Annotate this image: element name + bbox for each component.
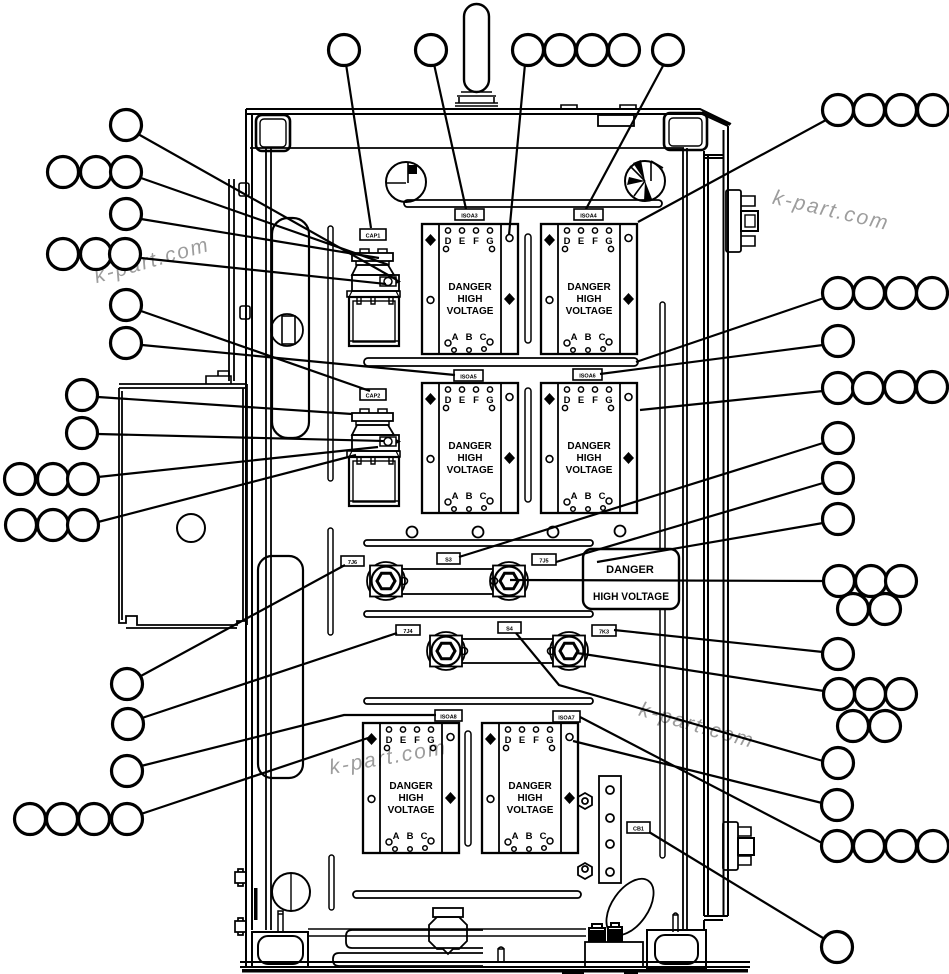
- LEADER LINES: [98, 64, 826, 938]
- wire L13 bent to ISOA8 label: [141, 715, 436, 766]
- TERMINAL STRIP CB1 area: [578, 776, 621, 883]
- wire L14 chain to panel ISOA8 diamond: [141, 738, 368, 814]
- CABINET: [229, 4, 750, 974]
- balloon T4: [653, 35, 684, 66]
- top-left corner block: [256, 115, 290, 151]
- balloon R8: [823, 639, 854, 670]
- svg-text:ISOA5: ISOA5: [460, 375, 477, 381]
- wire L2 chain to CAP1 top: [141, 178, 389, 265]
- bottom edge rails: [240, 962, 750, 967]
- wire L9 chain to CAP2: [98, 447, 378, 477]
- balloon R13: [822, 932, 853, 963]
- label 7J5: [532, 554, 556, 565]
- funnel bracket: [433, 908, 463, 917]
- handle base flange: [455, 92, 498, 106]
- panel ISOA8: [363, 723, 459, 853]
- small bracket upper: [239, 183, 249, 196]
- wire R12 ISOA7 label to chain: [580, 717, 822, 843]
- wire balloon T4 to ISOA4 label: [586, 64, 664, 209]
- label ISOA6: [573, 369, 602, 380]
- balloon L12: [113, 709, 144, 740]
- left vent: [386, 162, 426, 202]
- DOOR PANEL (left): [119, 371, 247, 628]
- svg-text:ISOA6: ISOA6: [579, 374, 596, 380]
- wire R13 to CB1 label: [649, 832, 823, 938]
- balloon L5: [111, 290, 142, 321]
- BUSBAR 1: [367, 562, 528, 600]
- horizontal bar F: [353, 891, 581, 898]
- balloon chain TR: [823, 95, 854, 126]
- svg-text:S3: S3: [445, 558, 452, 564]
- balloon R10: [823, 748, 854, 779]
- slot between P5 P6: [465, 731, 471, 846]
- balloon L11: [112, 669, 143, 700]
- svg-text:CB1: CB1: [633, 827, 644, 833]
- balloon R5: [823, 463, 854, 494]
- left outer flange rail: [229, 179, 234, 381]
- horizontal bar D: [364, 611, 593, 617]
- balloon R2: [823, 326, 854, 357]
- left wall bolts: [235, 869, 246, 886]
- wire L7 to CAP2 top plate: [98, 397, 352, 414]
- panel ISOA4: [541, 224, 637, 354]
- terminal block bottom: [585, 942, 643, 967]
- dark wall strip: [254, 888, 258, 920]
- top right small rectangle: [598, 115, 634, 126]
- balloon L7: [67, 380, 98, 411]
- horizontal bar A (top): [404, 200, 662, 207]
- SMALL LABELS: [341, 209, 650, 833]
- wire L4 chain to CAP1 bolt: [141, 258, 386, 284]
- balloon chain L10: [6, 510, 37, 541]
- RIGHT WALL CONNECTOR upper: [726, 190, 758, 252]
- svg-text:DANGER: DANGER: [606, 564, 654, 576]
- row of 4 small holes: [407, 527, 418, 538]
- balloon L13: [112, 756, 143, 787]
- bottom rail double line: [308, 929, 586, 936]
- label 7J6: [341, 556, 364, 566]
- wire R4 to S3 label: [459, 443, 823, 557]
- svg-text:CAP2: CAP2: [366, 394, 381, 400]
- balloon R11: [822, 790, 853, 821]
- wire R5 to 7J5 label: [556, 483, 823, 562]
- wire L1 to CAP1 bolt: [138, 134, 397, 280]
- horizontal bar E: [364, 698, 593, 704]
- balloon chain L4: [48, 239, 79, 270]
- horizontal bar B: [364, 358, 638, 366]
- svg-text:ISOA7: ISOA7: [558, 716, 575, 722]
- svg-text:7J5: 7J5: [539, 559, 548, 565]
- small bracket mid: [240, 306, 250, 319]
- left slot mid: [328, 528, 333, 635]
- wire R2 to ISOA6 label: [600, 345, 823, 374]
- label ISOA7: [553, 711, 580, 722]
- panel ISOA6: [541, 383, 637, 513]
- label 7J4: [396, 625, 420, 635]
- wire balloon T3 chain to panel ISOA3 right strip: [509, 64, 525, 235]
- right outer wall: [702, 112, 730, 931]
- BUSBAR 2: [427, 632, 588, 670]
- RIGHT WALL CONNECTOR lower: [723, 822, 754, 870]
- wire L10 chain to CAP2 bracket: [98, 455, 356, 522]
- label ISOA3: [455, 209, 484, 220]
- WATERMARKS: [91, 186, 891, 779]
- balloon R6: [823, 504, 854, 535]
- balloon L1: [111, 110, 142, 141]
- svg-text:CAP1: CAP1: [366, 234, 381, 240]
- bottom-right pad: [647, 930, 706, 968]
- horizontal bar C: [364, 540, 593, 546]
- wire R1 chain to bar B end: [636, 298, 824, 362]
- wire R8 to 7K3 label: [614, 630, 823, 652]
- label CAP1: [360, 229, 386, 240]
- top tabs: [561, 105, 636, 109]
- wire R10 bent to S4 label: [516, 633, 823, 761]
- CAPACITOR CAP1: [347, 249, 401, 346]
- wire L3 to CAP1 plate: [141, 219, 379, 258]
- balloon chain L14: [15, 804, 46, 835]
- top handle capsule: [464, 4, 489, 92]
- balloon cluster R9: [824, 679, 855, 710]
- loop wire: [597, 870, 663, 943]
- svg-text:7K3: 7K3: [599, 630, 609, 636]
- label CB1: [627, 822, 650, 833]
- wire R6 to sign area: [597, 523, 823, 562]
- balloon L6: [111, 328, 142, 359]
- small pin near funnel: [498, 947, 504, 962]
- CAPACITOR CAP2: [347, 409, 401, 506]
- wire balloon TR chain to panel ISOA4 right strip top: [638, 120, 826, 222]
- bottom long rounded rails: [333, 930, 483, 966]
- wire balloon T1 to CAP1 label: [346, 64, 371, 228]
- label CAP2: [360, 389, 386, 400]
- left slot bottom: [329, 855, 334, 910]
- cabinet top edge: [246, 109, 731, 126]
- balloon chain T3: [513, 35, 544, 66]
- right inner wall lines: [683, 148, 687, 930]
- lower-left rounded frame: [258, 556, 303, 778]
- balloon T2: [416, 35, 447, 66]
- left circle handle: [272, 873, 310, 911]
- label ISOA8: [435, 710, 462, 721]
- stem under circle: [278, 911, 283, 932]
- wire L6 to ISOA5 label: [142, 345, 455, 375]
- knockout circle with tab: [271, 314, 303, 346]
- top-right corner block: [664, 113, 707, 150]
- balloon chain R1: [823, 278, 854, 309]
- left slot upper: [328, 226, 333, 481]
- wire L8 to CAP2 bolt: [98, 434, 384, 441]
- upper-left rounded frame: [272, 218, 309, 438]
- BOTTOM DETAILS: [235, 869, 706, 968]
- slot between P1 P2: [525, 234, 531, 343]
- balloon T1: [329, 35, 360, 66]
- label S3: [437, 553, 460, 564]
- wire R11 to panel ISOA7 strip: [573, 741, 822, 803]
- label S4: [498, 622, 521, 633]
- wire balloon T2 to ISOA3 label: [434, 64, 466, 209]
- DANGER HIGH VOLTAGE sign: [583, 549, 679, 609]
- svg-text:ISOA3: ISOA3: [461, 214, 478, 220]
- svg-text:HIGH VOLTAGE: HIGH VOLTAGE: [593, 591, 669, 603]
- label ISOA4: [574, 209, 603, 220]
- wire R7 cluster horizontal to busbar1 terminal: [510, 580, 823, 581]
- balloon R4: [823, 423, 854, 454]
- wire L12 to 7J4 label: [142, 633, 397, 718]
- panel ISOA5: [422, 383, 518, 513]
- svg-text:7J4: 7J4: [403, 629, 413, 635]
- svg-text:7J6: 7J6: [348, 560, 357, 566]
- balloon chain R12: [822, 831, 853, 862]
- wire R9 chain to busbar2 terminal: [577, 653, 824, 691]
- label 7K3: [592, 625, 616, 636]
- slot between P3 P4: [525, 388, 531, 502]
- svg-text:S4: S4: [506, 627, 514, 633]
- label ISOA5: [454, 370, 483, 381]
- balloon L3: [111, 199, 142, 230]
- left outer wall: [246, 109, 252, 968]
- panel ISOA7: [482, 723, 578, 853]
- panel ISOA3: [422, 224, 518, 354]
- left inner wall lines: [266, 148, 271, 930]
- right tall slot: [660, 302, 665, 858]
- wire L11 to 7J6 label: [139, 565, 345, 677]
- balloon chain R3: [823, 373, 854, 404]
- balloon cluster R7: [824, 566, 855, 597]
- wire R3 chain to panel ISOA6 edge: [640, 391, 823, 410]
- balloon chain L9: [5, 464, 36, 495]
- wire L5 to CAP2 label: [141, 311, 370, 391]
- right vent: [625, 160, 665, 201]
- bottom-left pad: [252, 932, 308, 967]
- balloon chain L2: [48, 157, 79, 188]
- inner top rail line: [250, 147, 684, 149]
- svg-text:ISOA8: ISOA8: [440, 715, 457, 721]
- svg-text:ISOA4: ISOA4: [580, 214, 597, 220]
- small pin right: [673, 913, 678, 932]
- balloon L8: [67, 418, 98, 449]
